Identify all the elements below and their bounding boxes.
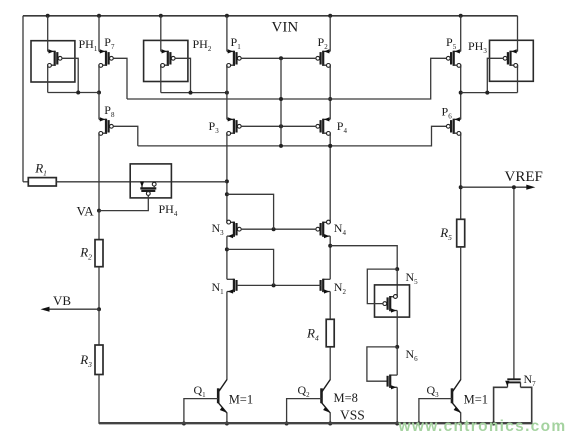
wire R1 bus <box>23 181 28 183</box>
wire PH1 gate to drain bus <box>62 58 78 92</box>
svg-text:N5: N5 <box>406 270 419 286</box>
wire PH2 gate down <box>175 58 190 92</box>
wire lower gate rail y=145.9 <box>138 126 447 146</box>
wire P1 P2 gate wire <box>241 57 316 59</box>
svg-text:www.cntronics.com: www.cntronics.com <box>398 418 567 435</box>
node Q2 base on VSS rail <box>285 422 289 426</box>
node mirror rail junction x=281 <box>279 97 283 101</box>
svg-text:Q2: Q2 <box>298 383 311 399</box>
svg-text:VREF: VREF <box>505 169 543 185</box>
wire P8 gate to lower rail <box>113 126 138 146</box>
transistor N1 <box>227 278 234 280</box>
transistor PH1 <box>48 50 55 52</box>
arrow VB <box>41 307 50 312</box>
transistor N7 rotated <box>507 378 520 380</box>
svg-text:M=8: M=8 <box>334 391 358 405</box>
node VREF to N7 junction <box>512 185 516 189</box>
node P4 drain on lower rail <box>328 144 332 148</box>
wire PH1 drain down <box>47 65 49 92</box>
wire R3 to VSS rail <box>98 375 100 424</box>
svg-text:PH2: PH2 <box>193 37 212 53</box>
svg-text:P4: P4 <box>337 119 348 135</box>
transistor P8 <box>99 118 106 120</box>
svg-text:VIN: VIN <box>272 20 299 36</box>
wire PH2 drain down <box>160 65 162 92</box>
transistor N3 <box>227 220 234 222</box>
wire P7 gate to mirror rail <box>113 58 127 99</box>
node Q1 emitter on VSS rail <box>225 422 229 426</box>
node P7 drain / P8 source junction <box>97 91 101 95</box>
transistor P6 <box>454 118 461 120</box>
wire N6 drain <box>396 347 398 375</box>
wire R5 to Q3 collector <box>460 247 462 380</box>
node P3 P4 gate junction <box>279 124 283 128</box>
transistor N2 <box>323 278 330 280</box>
svg-text:R1: R1 <box>34 161 47 178</box>
wire P3 drain down to N3 drain <box>226 133 228 220</box>
svg-text:N1: N1 <box>212 280 225 296</box>
wire N4 source down to N2 drain <box>329 236 331 279</box>
wire PH1 source from VIN rail <box>47 16 49 52</box>
node PH3 gate junction on bus <box>485 91 489 95</box>
transistor P5 <box>454 50 461 52</box>
node VA junction <box>97 209 101 213</box>
wire PH3 drain down <box>517 65 519 92</box>
wire column x=99 VIN to P7 source <box>98 16 100 52</box>
svg-text:VB: VB <box>53 293 71 308</box>
svg-text:R5: R5 <box>439 225 452 242</box>
node VIN rail junction x=47.7 <box>46 14 50 18</box>
svg-text:PH3: PH3 <box>468 39 487 55</box>
wire VIN rail corner down to PH3 source <box>517 16 519 52</box>
node Q3 emitter on VSS rail <box>459 422 463 426</box>
wire P8 drain down to VA <box>98 133 100 210</box>
wire R4 to Q2 collector <box>329 347 331 380</box>
node N1 gate tap junction <box>225 247 229 251</box>
wire N6 gate tap <box>367 347 397 381</box>
wire P7 drain to node <box>98 65 100 92</box>
wire PH4 gate to VA <box>99 195 148 210</box>
node R1 bus junction <box>225 179 229 183</box>
wire VB arrow line <box>46 308 100 310</box>
node lower rail junction x=330 <box>328 144 332 148</box>
svg-text:Q3: Q3 <box>427 383 440 399</box>
transistor Q2 <box>320 388 323 403</box>
node Q3 base on VSS rail <box>417 422 421 426</box>
transistor PH3 <box>511 50 518 52</box>
node VIN rail junction x=160.8 <box>159 14 163 18</box>
box PH2 guard box <box>144 40 188 81</box>
node N3 gate tap junction <box>225 192 229 196</box>
arrow VREF <box>526 185 535 190</box>
svg-text:N7: N7 <box>524 372 537 388</box>
node PH1 gate junction on bus <box>76 91 80 95</box>
svg-text:P7: P7 <box>104 35 115 51</box>
box PH3 guard box <box>490 40 534 81</box>
svg-text:N2: N2 <box>334 280 347 296</box>
wire N7 source to guard frame <box>494 387 508 424</box>
wire VA to R2 <box>98 211 100 240</box>
resistor R4 <box>326 319 334 347</box>
wire VSS bottom rail <box>99 422 532 424</box>
wire VIN top rail <box>23 15 518 17</box>
transistor N4 <box>323 220 330 222</box>
wire column x=227 VIN to P1 source <box>226 16 228 52</box>
transistor P2 <box>323 50 330 52</box>
wire P8 source <box>98 93 100 120</box>
wire N3 N4 gate wire <box>241 228 316 230</box>
transistor PH4 rotated <box>141 182 143 188</box>
svg-text:M=1: M=1 <box>229 393 253 407</box>
node N1 N2 gate tap junction <box>272 283 276 287</box>
node VB junction <box>97 307 101 311</box>
wire PH2 drain bus to P1 column <box>161 92 227 94</box>
svg-text:VSS: VSS <box>340 408 365 423</box>
svg-text:P5: P5 <box>446 35 457 51</box>
wire PH3 gate out of box <box>487 58 503 92</box>
resistor R2 <box>95 240 103 267</box>
wire N5 source down <box>396 311 398 347</box>
wire N1 gate tap <box>227 249 274 285</box>
transistor P7 <box>99 50 106 52</box>
box N5 guard box <box>375 285 410 317</box>
svg-text:PH1: PH1 <box>79 37 98 53</box>
wire N1 source down to Q1 collector <box>226 292 228 381</box>
transistor PH2 <box>161 50 168 52</box>
box PH1 guard box <box>31 41 75 82</box>
node VIN rail junction x=99 <box>97 14 101 18</box>
wire PH2 source from VIN rail <box>160 16 162 52</box>
wire N1 N2 gate wire <box>237 284 321 286</box>
wire gate cross vertical x=281 <box>280 58 282 146</box>
transistor P1 <box>227 50 234 52</box>
node N7 frame on VSS rail <box>492 422 496 426</box>
wire P6 drain down to VREF node <box>460 133 462 219</box>
transistor N6 <box>390 374 397 376</box>
resistor R5 <box>457 219 465 247</box>
node VREF junction <box>459 185 463 189</box>
svg-text:R4: R4 <box>306 326 319 343</box>
wire N4 source to N5 drain branch <box>330 246 397 269</box>
transistor P4 <box>323 118 330 120</box>
svg-text:N4: N4 <box>334 221 347 237</box>
transistor Q3 <box>451 388 454 403</box>
wire left border from VIN rail down to R1 <box>22 16 24 182</box>
svg-text:P3: P3 <box>209 119 220 135</box>
wire N5 gate tap <box>367 269 397 304</box>
wire R2 to VB <box>98 267 100 310</box>
node N6 gate tap junction <box>395 345 399 349</box>
svg-text:PH4: PH4 <box>159 202 178 218</box>
svg-text:P1: P1 <box>231 35 242 51</box>
wire R1 to P3 column <box>56 181 227 183</box>
wire P3 P4 gate wire <box>241 125 316 127</box>
wire PH1 drain bus to P7 column <box>48 92 99 94</box>
svg-text:M=1: M=1 <box>464 393 488 407</box>
wire mirror rail y=99 <box>127 58 446 99</box>
transistor P3 <box>227 118 234 120</box>
node P2 drain on mirror rail <box>328 97 332 101</box>
svg-text:N6: N6 <box>406 347 419 363</box>
wire N3 gate tap <box>227 194 274 229</box>
wire P4 drain down to N4 drain <box>329 133 331 220</box>
node N5 gate tap junction <box>395 267 399 271</box>
node VIN rail junction x=330.2 <box>328 14 332 18</box>
node P1 P2 gate junction <box>279 56 283 60</box>
wire P1 drain down to P3 source <box>226 65 228 119</box>
node N6 source on VSS rail <box>395 422 399 426</box>
wire N6 source to VSS rail <box>396 387 398 424</box>
node PH2 gate junction on bus <box>189 91 193 95</box>
wire P5 drain down to P6 source <box>460 65 462 119</box>
node PH2 bus to P1 drain junction <box>225 91 229 95</box>
transistor N5 <box>390 294 397 296</box>
svg-text:P2: P2 <box>318 35 329 51</box>
wire N3 source down to N1 drain <box>226 236 228 279</box>
wire N5 drain <box>396 269 398 294</box>
resistor R3 <box>95 345 103 375</box>
svg-text:R2: R2 <box>79 245 92 262</box>
wire VB to R3 <box>98 309 100 345</box>
wire VREF line <box>461 186 530 188</box>
svg-text:P6: P6 <box>442 105 453 121</box>
wire column x=461 VIN to P5 source <box>460 16 462 52</box>
node N3 N4 gate tap junction <box>272 227 276 231</box>
node Q2 emitter on VSS rail <box>328 422 332 426</box>
wire VREF to N7 gate <box>513 187 515 379</box>
svg-text:VA: VA <box>77 204 95 219</box>
svg-text:R3: R3 <box>79 352 92 369</box>
svg-text:Q1: Q1 <box>194 383 207 399</box>
svg-text:N3: N3 <box>212 221 225 237</box>
node P5 drain to PH3 bus junction <box>459 91 463 95</box>
node VIN rail junction x=460.7 <box>459 14 463 18</box>
transistor Q1 <box>217 388 220 403</box>
resistor R1 <box>28 178 56 186</box>
box PH4 guard box <box>130 164 171 198</box>
wire PH3 bus to P5 column <box>461 92 518 94</box>
node N4 source to N5 branch junction <box>328 244 332 248</box>
svg-text:P8: P8 <box>104 103 115 119</box>
wire N2 source down to R4 <box>329 292 331 320</box>
wire N7 drain to guard frame <box>521 387 532 424</box>
node VIN rail junction x=226.9 <box>225 14 229 18</box>
wire column x=330 VIN to P2 source <box>329 16 331 52</box>
node Q1 base on VSS rail <box>182 422 186 426</box>
node lower rail junction x=281 <box>279 144 283 148</box>
wire P2 drain down to P4 source <box>329 65 331 119</box>
